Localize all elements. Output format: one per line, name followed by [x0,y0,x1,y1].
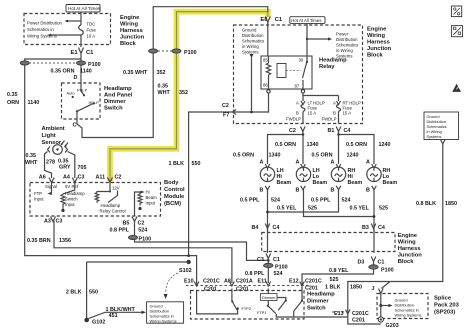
svg-text:C4: C4 [344,128,351,134]
svg-text:C201: C201 [204,286,217,292]
svg-text:C3: C3 [78,175,85,181]
svg-text:5V Ref: 5V Ref [65,184,79,189]
svg-text:Engine: Engine [120,15,140,21]
svg-text:Beam: Beam [277,180,292,186]
svg-text:Block: Block [398,259,415,265]
svg-text:0.5 PPL: 0.5 PPL [240,197,260,203]
svg-text:D3: D3 [358,260,365,266]
svg-text:Headlamp: Headlamp [104,86,132,92]
svg-text:0.35: 0.35 [58,158,69,164]
svg-text:Headlamp: Headlamp [101,203,121,208]
svg-text:Switch: Switch [307,306,326,312]
svg-text:1850: 1850 [350,285,362,291]
svg-text:Schematics: Schematics [242,39,264,44]
svg-text:C1: C1 [275,17,283,23]
svg-text:524: 524 [271,197,280,203]
svg-text:Auto: Auto [67,91,75,96]
svg-text:12V: 12V [112,186,120,191]
svg-text:A4: A4 [63,175,70,181]
svg-text:FWDLP: FWDLP [322,116,337,121]
svg-text:FTP1: FTP1 [257,310,267,315]
svg-text:Wiring: Wiring [398,240,416,246]
svg-text:J: J [372,286,375,292]
svg-text:B: B [366,187,370,193]
svg-text:Relay: Relay [319,64,335,70]
svg-text:Schematics in: Schematics in [27,27,54,32]
svg-text:Junction: Junction [398,253,423,259]
svg-text:C1: C1 [273,257,280,263]
svg-text:Hot At All Times: Hot At All Times [291,18,321,23]
svg-text:1240: 1240 [347,153,359,159]
svg-text:525: 525 [308,206,317,212]
svg-text:C1: C1 [86,50,94,56]
svg-text:Headlamp: Headlamp [319,58,347,64]
svg-text:A6: A6 [39,175,46,181]
svg-text:in Wiring: in Wiring [242,44,259,49]
svg-text:10 A: 10 A [87,34,96,39]
svg-text:Wiring: Wiring [120,22,138,28]
svg-text:B5: B5 [123,221,130,227]
svg-text:0.5 YEL: 0.5 YEL [277,206,297,212]
svg-text:Dimmer: Dimmer [104,99,126,105]
svg-text:P100: P100 [88,62,101,68]
svg-text:C201: C201 [236,286,249,292]
svg-text:Switch: Switch [104,106,123,112]
svg-text:Distribution: Distribution [242,33,264,38]
svg-text:C3: C3 [257,257,264,263]
svg-text:Wiring Systems: Wiring Systems [395,313,422,318]
svg-text:C4: C4 [273,225,280,231]
svg-text:1240: 1240 [379,142,391,148]
svg-text:1356: 1356 [59,238,71,244]
svg-text:B3: B3 [362,225,369,231]
svg-text:E13: E13 [334,311,344,317]
svg-text:0.35: 0.35 [7,92,18,98]
svg-text:A: A [296,159,300,165]
svg-text:0.5 ORN: 0.5 ORN [233,153,254,159]
svg-text:A11: A11 [96,175,106,181]
svg-text:B4: B4 [252,225,259,231]
svg-text:Power Distribution: Power Distribution [27,21,62,26]
svg-text:Power: Power [336,32,349,37]
svg-text:Wiring Systems: Wiring Systems [150,318,177,323]
svg-text:2 BLK: 2 BLK [66,290,82,296]
svg-text:G102: G102 [92,320,105,326]
svg-text:C201C: C201C [352,311,369,317]
svg-text:A3: A3 [44,219,51,225]
svg-text:FWDLP: FWDLP [286,116,301,121]
svg-text:0.35 BRN: 0.35 BRN [27,238,51,244]
svg-text:Junction: Junction [367,46,392,52]
svg-text:524: 524 [274,271,283,277]
svg-text:B: B [296,187,300,193]
svg-text:C1: C1 [378,260,385,266]
svg-text:A: A [296,100,299,105]
svg-text:G203: G203 [386,323,399,329]
svg-text:Block: Block [367,53,384,59]
svg-text:Ambient: Ambient [42,126,65,132]
svg-text:Input: Input [146,201,156,206]
svg-text:C201: C201 [305,285,318,291]
svg-text:C201C: C201C [203,278,220,284]
svg-text:0.35 WHT: 0.35 WHT [123,70,148,76]
svg-text:TDC: TDC [87,22,96,27]
svg-text:C2: C2 [138,221,145,227]
svg-text:Hi: Hi [146,190,150,195]
svg-text:C2: C2 [222,103,229,109]
svg-text:1 BLK: 1 BLK [169,161,185,167]
svg-text:Switch: Switch [65,197,78,202]
svg-text:A8: A8 [224,278,231,284]
svg-text:A: A [366,159,370,165]
svg-text:0.8 PPL: 0.8 PPL [245,271,265,277]
svg-text:Dimmer: Dimmer [307,299,329,305]
svg-text:0.5 ORN: 0.5 ORN [346,142,367,148]
svg-text:Beam: Beam [146,195,158,200]
svg-text:30: 30 [299,58,304,63]
svg-text:FTP: FTP [34,191,42,196]
svg-text:0.35 ORN: 0.35 ORN [51,68,75,74]
svg-text:Systems: Systems [242,50,258,55]
svg-text:C3: C3 [56,219,63,225]
svg-text:A: A [333,100,336,105]
svg-text:Distribution: Distribution [336,37,358,42]
svg-text:Wiring Systems: Wiring Systems [27,34,57,39]
svg-text:85: 85 [263,58,268,63]
svg-text:15 A: 15 A [343,111,352,116]
svg-text:Dimmer: Dimmer [262,295,276,300]
svg-text:0.5 PPL: 0.5 PPL [311,197,331,203]
svg-text:Headlamp: Headlamp [307,292,335,298]
svg-text:0.5 ORN: 0.5 ORN [312,153,333,159]
svg-text:B: B [331,187,335,193]
svg-text:Harness: Harness [367,40,390,46]
svg-text:Junction: Junction [120,35,145,41]
svg-text:Block: Block [120,41,137,47]
svg-text:C201C: C201C [305,278,322,284]
svg-text:0.35: 0.35 [26,153,37,159]
svg-text:Input: Input [65,202,75,207]
svg-text:15 A: 15 A [308,111,317,116]
svg-text:352: 352 [179,90,188,96]
svg-text:(SP203): (SP203) [434,310,455,316]
svg-text:Beam: Beam [313,180,328,186]
svg-text:S102: S102 [179,268,192,274]
svg-text:WHT: WHT [25,160,38,166]
svg-text:C2: C2 [289,128,296,134]
svg-text:1140: 1140 [28,100,40,106]
svg-text:F7: F7 [223,113,229,119]
svg-text:B: B [333,110,336,115]
svg-text:Body: Body [164,180,179,186]
svg-text:WHT: WHT [158,90,171,96]
svg-text:550: 550 [192,161,201,167]
svg-text:Systems: Systems [427,134,442,139]
svg-text:E1: E1 [71,50,79,56]
svg-text:Light: Light [42,133,56,139]
svg-text:FTP2: FTP2 [242,306,252,311]
svg-text:Schematics: Schematics [336,43,358,48]
svg-text:Harness: Harness [398,246,421,252]
svg-text:Engine: Engine [398,233,418,239]
svg-text:B: B [260,187,264,193]
svg-text:C2: C2 [115,175,122,181]
svg-text:451: 451 [109,313,118,319]
svg-text:C201: C201 [352,318,365,324]
svg-text:1 BLK/WHT: 1 BLK/WHT [106,307,136,313]
svg-text:A: A [260,159,264,165]
svg-text:E12: E12 [289,278,299,284]
svg-text:352: 352 [157,70,166,76]
svg-text:524: 524 [342,197,351,203]
svg-text:525: 525 [330,277,339,283]
svg-text:C201A: C201A [236,278,253,284]
svg-text:1340: 1340 [307,142,319,148]
svg-text:(BCM): (BCM) [164,201,181,207]
svg-text:0.5 YEL: 0.5 YEL [350,206,370,212]
svg-text:Wiring: Wiring [367,33,385,39]
svg-text:0.5 ORN: 0.5 ORN [275,142,296,148]
svg-text:P100: P100 [381,268,394,274]
svg-text:Hot At All Times: Hot At All Times [68,6,101,11]
svg-text:P100: P100 [275,265,288,271]
svg-text:Fuse: Fuse [87,28,97,33]
svg-text:1 BLK: 1 BLK [325,285,341,291]
svg-text:0.8 PPL: 0.8 PPL [110,228,130,234]
svg-text:Splice: Splice [434,296,452,302]
svg-text:Input: Input [34,197,44,202]
svg-text:Ground: Ground [242,28,257,33]
svg-text:Pack 203: Pack 203 [434,303,460,309]
svg-text:0.35: 0.35 [158,83,169,89]
svg-text:ORN: ORN [7,100,19,106]
svg-text:86: 86 [263,83,268,88]
svg-text:And Panel: And Panel [104,93,133,99]
svg-text:525: 525 [379,206,388,212]
svg-text:Beam: Beam [383,180,398,186]
svg-text:Module: Module [164,194,185,200]
svg-text:B1: B1 [328,128,335,134]
svg-text:0.8 YEL: 0.8 YEL [329,268,349,274]
svg-text:Relay Control: Relay Control [100,208,126,213]
svg-text:705: 705 [78,165,87,171]
svg-text:550: 550 [89,290,98,296]
svg-text:1140: 1140 [80,68,92,74]
svg-text:Engine: Engine [367,27,387,33]
svg-text:Control: Control [164,187,185,193]
svg-text:87: 87 [295,84,300,89]
svg-text:D: D [74,75,78,81]
svg-text:B: B [296,110,299,115]
svg-text:A: A [331,159,335,165]
svg-text:1850: 1850 [445,201,457,207]
svg-text:in Wiring: in Wiring [336,48,353,53]
svg-text:P100: P100 [184,50,197,56]
svg-text:E11: E11 [258,278,267,284]
svg-text:0.8 BLK: 0.8 BLK [416,201,436,207]
svg-text:278: 278 [46,159,55,165]
svg-text:524: 524 [138,228,147,234]
svg-text:Beam: Beam [348,180,363,186]
svg-text:1340: 1340 [269,153,281,159]
svg-text:C4: C4 [378,225,385,231]
svg-text:Harness: Harness [120,28,143,34]
svg-text:E10: E10 [184,278,194,284]
svg-text:GRY: GRY [59,165,71,171]
